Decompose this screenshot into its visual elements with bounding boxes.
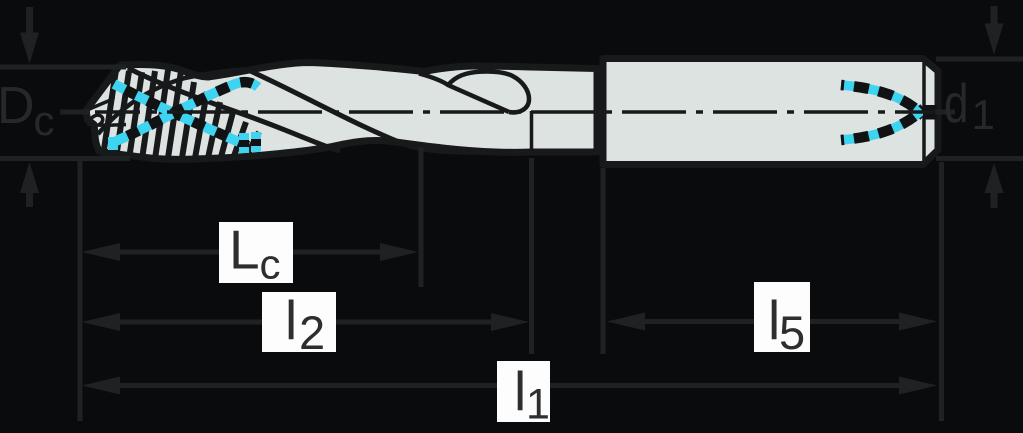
l1 label box xyxy=(497,361,550,422)
svg-text:1: 1 xyxy=(526,381,550,429)
coolant channel A end ticks xyxy=(239,133,249,153)
centerline dash-dot xyxy=(95,110,934,114)
hatch group 1 (near tip) xyxy=(103,70,181,159)
coolant channel B (lower-left to upper-right) cyan xyxy=(116,82,258,141)
shank coolant outlet lower xyxy=(841,108,924,140)
tip facet line 1 xyxy=(87,76,114,110)
left vertical extension line xyxy=(78,158,83,421)
flute edge C (rising near tip) xyxy=(98,69,250,134)
svg-text:2: 2 xyxy=(299,306,325,359)
svg-text:D: D xyxy=(0,77,35,135)
flute end vertical line xyxy=(530,111,534,152)
l5 label box xyxy=(754,282,810,352)
shank chamfer inner line xyxy=(922,63,926,160)
drill body: flutes + neck silhouette xyxy=(86,63,597,160)
Dc top extension line xyxy=(0,65,126,70)
svg-text:5: 5 xyxy=(779,306,805,359)
flute edge A (long diagonal) xyxy=(248,70,512,152)
svg-text:l: l xyxy=(285,289,297,351)
flute tail loop outline xyxy=(448,71,529,112)
Dc bottom extension line xyxy=(0,156,130,161)
svg-text:l: l xyxy=(514,360,526,422)
shank coolant outlet upper xyxy=(841,85,924,116)
l5 left extension line xyxy=(601,168,606,354)
tip facet line 2 xyxy=(87,99,113,110)
l2 dimension line xyxy=(110,320,262,325)
d1 top extension line xyxy=(936,57,1023,62)
tip chisel squiggle xyxy=(89,115,126,126)
coolant channel A (upper-left to lower-right) cyan xyxy=(114,84,248,146)
Lc label box xyxy=(219,222,293,283)
d1 bottom extension line xyxy=(936,156,1023,161)
flute tail: pinch + straight lower edge xyxy=(419,74,509,113)
d1 up arrow xyxy=(985,163,1004,193)
svg-text:c: c xyxy=(34,97,55,144)
Dc leader line xyxy=(60,110,90,115)
tip facet edge vertical xyxy=(113,76,114,99)
coolant outlet tick xyxy=(935,110,955,115)
l5 dimension line xyxy=(635,319,754,324)
coolant convergence square xyxy=(923,105,937,120)
right vertical extension line xyxy=(939,162,944,421)
svg-text:1: 1 xyxy=(972,91,995,138)
hatch group 2 (under flute edge) xyxy=(182,82,259,158)
l2 label box xyxy=(262,292,336,352)
coolant channel B start tick xyxy=(108,137,118,150)
l2 right extension line xyxy=(529,158,534,354)
svg-text:L: L xyxy=(229,219,260,281)
Lc right extension line xyxy=(419,147,424,287)
d1 down arrow xyxy=(991,6,998,25)
svg-text:d: d xyxy=(944,72,968,134)
Dc down arrow xyxy=(26,7,33,34)
Lc dimension line xyxy=(110,250,219,255)
l1 dimension line xyxy=(110,383,497,388)
svg-text:c: c xyxy=(260,241,281,288)
drill body: shank silhouette xyxy=(603,59,938,165)
Dc up arrow xyxy=(20,162,39,193)
flute edge D (falling) xyxy=(128,68,340,151)
